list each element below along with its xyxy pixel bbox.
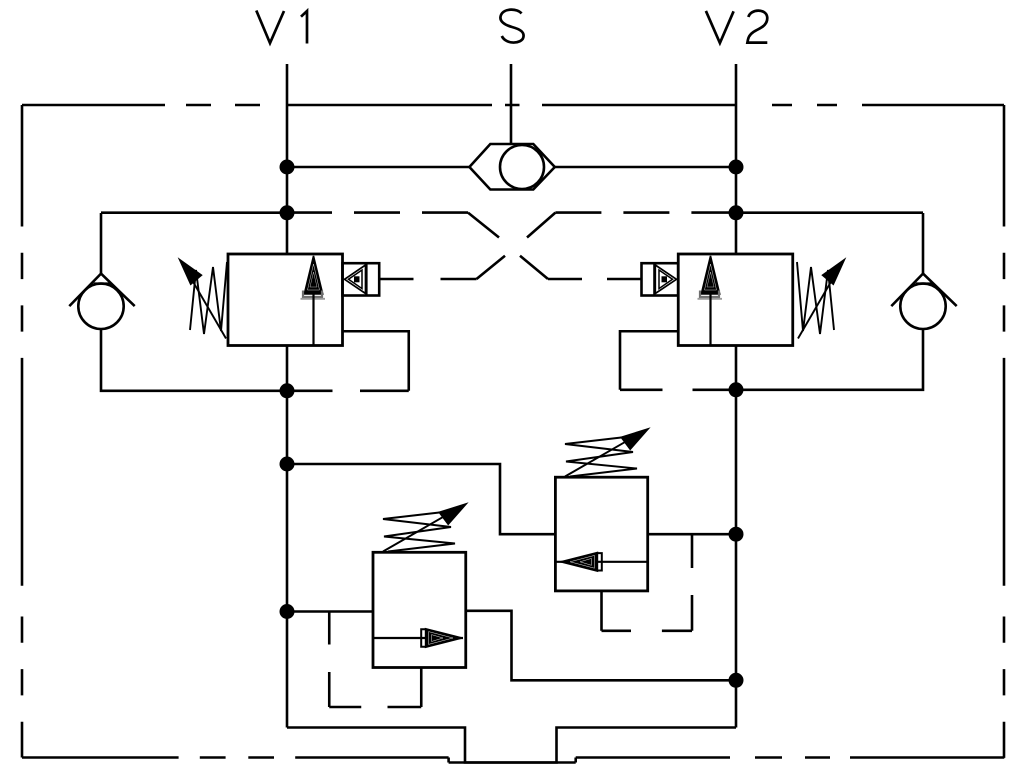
node V1-shuttle — [280, 160, 295, 175]
port label V2 — [706, 11, 767, 43]
shuttle valve ball — [500, 145, 544, 189]
bottom outlet wire — [287, 728, 736, 763]
relief valve RV2 pilot stem — [600, 591, 603, 631]
node V2-RV1 — [729, 673, 744, 688]
relief valve RV2 pilot dashed loop — [602, 534, 693, 631]
wire V1 to RV1 inlet — [287, 610, 373, 613]
check valve CV1 seat — [69, 274, 134, 307]
relief valve RV2 adjust arrow — [565, 429, 648, 477]
pilot line V1 to cross (dashed) — [287, 211, 468, 214]
relief valve RV1 body — [373, 552, 466, 667]
manifold enclosure border left — [21, 105, 24, 758]
manifold enclosure border right — [1003, 105, 1006, 758]
manifold enclosure border bottom — [22, 758, 1004, 763]
port label S — [500, 10, 523, 43]
check valve CV2 bottom wire — [736, 329, 923, 390]
relief valve RV2 body — [555, 477, 647, 591]
node V2-shuttle — [729, 160, 744, 175]
node V2-pilot — [729, 205, 744, 220]
counterbalance valve CB2 adjust arrow — [798, 260, 845, 339]
relief valve RV1 pilot dashed loop — [329, 612, 421, 708]
relief valve RV2 spring — [565, 437, 637, 477]
counterbalance valve CB1 internal arrow — [301, 256, 326, 346]
shuttle valve U5 body — [469, 144, 554, 190]
port label V1 — [256, 11, 307, 44]
node V2-drain — [729, 382, 744, 397]
counterbalance valve CB2 body — [678, 254, 793, 346]
relief valve RV1 adjust arrow — [383, 504, 466, 552]
counterbalance valve CB2 spring — [797, 262, 834, 334]
counterbalance valve CB1 spring — [190, 262, 227, 334]
node V2-RV2 — [729, 527, 744, 542]
relief valve RV1 outlet wire — [466, 611, 736, 681]
pilot cross diagonal B — [477, 213, 556, 279]
check valve CV2 seat poppet — [916, 282, 932, 284]
wire shuttle valve to V2 — [555, 166, 736, 169]
counterbalance valve CB2 drain wire — [620, 331, 736, 390]
pilot line cross to V2 (dashed) — [555, 211, 736, 214]
relief valve RV2 internal arrow — [555, 552, 647, 571]
relief valve RV1 pilot stem — [420, 668, 423, 708]
pilot line cross to right pilot cap (dashed) — [548, 278, 642, 281]
counterbalance valve CB1 adjust arrow — [180, 260, 227, 339]
counterbalance valve CB1 drain wire — [287, 331, 409, 391]
check valve CV1 top wire — [101, 213, 287, 274]
wire V2 column lower — [735, 346, 738, 728]
check valve CV2 ball — [900, 284, 945, 329]
pilot line left cap to cross (dashed) — [414, 278, 477, 281]
manifold enclosure border top — [22, 104, 1004, 107]
relief valve RV1 internal arrow — [373, 629, 463, 648]
node V1-pilot — [280, 205, 295, 220]
wire V2 stem — [735, 64, 738, 254]
wire V1 to RV2 inlet — [287, 464, 555, 534]
node V1-drain — [280, 383, 295, 398]
pilot cross diagonal A — [468, 213, 548, 279]
wire S stem — [510, 64, 513, 144]
check valve CV1 bottom wire — [101, 329, 287, 391]
check valve CV1 seat poppet — [94, 282, 110, 284]
check valve CV1 ball — [78, 284, 123, 329]
counterbalance valve CB2 internal arrow — [698, 256, 723, 346]
pilot wire from left pilot cap — [379, 278, 413, 281]
node V1-RV2 — [280, 457, 295, 472]
counterbalance valve CB2 pilot cap — [642, 263, 679, 295]
wire V1 stem — [286, 64, 289, 254]
counterbalance valve CB1 pilot cap — [343, 263, 380, 295]
node V1-RV1 — [280, 604, 295, 619]
wire V1 column lower — [286, 346, 289, 728]
check valve CV2 top wire — [736, 213, 923, 274]
relief valve RV2 outlet wire — [648, 533, 736, 536]
relief valve RV1 spring — [383, 512, 455, 552]
counterbalance valve CB1 body — [228, 254, 343, 346]
wire V1 to shuttle valve — [287, 166, 469, 169]
check valve CV2 seat — [891, 274, 956, 307]
